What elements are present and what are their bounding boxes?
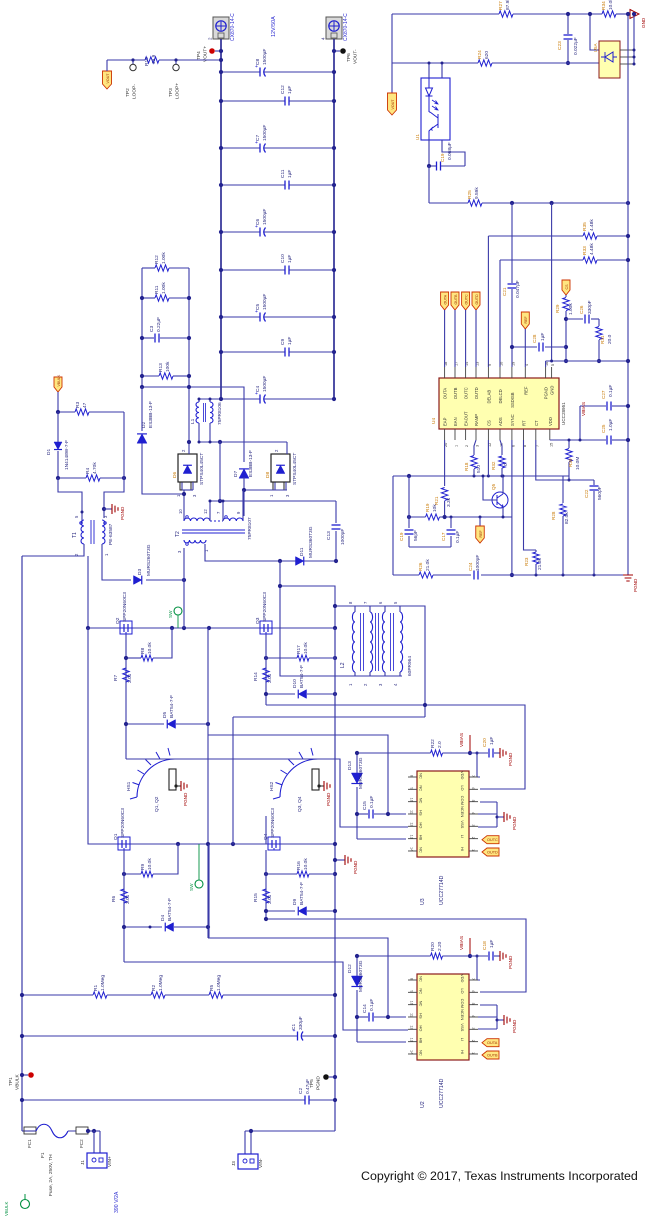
svg-text:D11: D11: [299, 547, 305, 556]
resistor R21 3.3k on EAP line: [444, 440, 446, 486]
svg-text:J3: J3: [231, 1161, 236, 1166]
svg-text:1500µF: 1500µF: [262, 125, 268, 141]
svg-text:2.0: 2.0: [437, 741, 443, 748]
wire to leg B bus: [280, 586, 335, 628]
svg-text:R25: R25: [467, 190, 473, 199]
svg-text:D5: D5: [162, 712, 168, 718]
svg-text:8: 8: [410, 775, 414, 777]
svg-text:21.0k: 21.0k: [425, 559, 431, 571]
svg-text:VBIAS: VBIAS: [459, 733, 465, 747]
capacitor C17 0.1uF: [450, 517, 452, 528]
capacitor C7 1500uF: [221, 147, 260, 149]
wire leg A mid vertical: [207, 628, 209, 938]
net flag OUTC to U3 LI: [482, 836, 499, 844]
wire T2 center tap: [209, 501, 211, 521]
svg-text:EAP: EAP: [443, 417, 448, 426]
svg-text:PGND: PGND: [508, 955, 513, 969]
svg-text:9: 9: [410, 787, 414, 789]
svg-text:R20: R20: [430, 942, 436, 951]
capacitor C28 1uF: [512, 346, 537, 348]
svg-text:C27: C27: [601, 390, 606, 399]
svg-text:10: 10: [410, 798, 414, 802]
capacitor C23 0.022uF: [567, 14, 569, 34]
svg-text:1.0Meg: 1.0Meg: [216, 975, 222, 991]
svg-text:C13: C13: [326, 531, 332, 540]
optocoupler U1: [421, 78, 450, 140]
svg-text:COM: COM: [460, 999, 465, 1008]
svg-text:ADS: ADS: [498, 417, 503, 426]
wire row 517: [409, 516, 426, 518]
wire T2 primary pin1 row / diode D11 MURS360T3G: [205, 544, 336, 561]
resistor R14 3.01: [265, 634, 267, 705]
svg-text:VBIAS: VBIAS: [459, 936, 465, 950]
svg-text:VBULK: VBULK: [57, 374, 61, 386]
svg-text:T2: T2: [175, 531, 181, 537]
svg-text:620: 620: [484, 51, 490, 59]
svg-text:3.01: 3.01: [125, 894, 131, 904]
gate driver U2 UCC27714D: [417, 974, 469, 1060]
svg-text:10.0k: 10.0k: [147, 642, 153, 654]
svg-text:VIN+: VIN+: [107, 1156, 113, 1167]
test point SW leg B: [195, 880, 203, 888]
capacitor C26 330pF: [566, 318, 583, 320]
svg-text:75PR8107: 75PR8107: [247, 517, 253, 540]
wire VBIAS rail / C27: [580, 405, 606, 407]
svg-text:U3: U3: [420, 898, 426, 905]
svg-text:PGND: PGND: [512, 816, 517, 830]
svg-text:HI: HI: [460, 847, 465, 851]
svg-text:1500µF: 1500µF: [262, 49, 268, 65]
net flag OUTD to U3 HI: [482, 848, 499, 856]
svg-text:R23: R23: [524, 557, 529, 566]
resistor R10 49.9: [145, 57, 159, 63]
svg-text:R29: R29: [555, 304, 560, 313]
svg-text:0: 0: [503, 463, 509, 466]
fuse F1 with clips FC1 FC2: [22, 1130, 36, 1132]
svg-text:R30: R30: [568, 458, 573, 467]
svg-text:VDD: VDD: [460, 771, 465, 780]
diode D4 BAT54-7-F: [124, 926, 162, 928]
test point TP4 VOUT+: [215, 50, 221, 52]
svg-text:1µF: 1µF: [489, 737, 495, 745]
svg-text:10: 10: [500, 362, 504, 366]
svg-text:U1: U1: [415, 134, 420, 140]
svg-text:1.0Meg: 1.0Meg: [100, 975, 106, 991]
capacitor C4 1500uF: [198, 398, 260, 400]
svg-text:C8: C8: [255, 59, 261, 65]
svg-text:T1: T1: [72, 532, 78, 538]
wire row 705 to U3 LO: [266, 705, 525, 789]
svg-text:11: 11: [410, 1013, 414, 1017]
svg-text:5: 5: [471, 1003, 475, 1005]
svg-text:Fuse, 2A, 250V, TH: Fuse, 2A, 250V, TH: [48, 1154, 54, 1196]
capacitor C24 1000pF: [473, 571, 475, 580]
svg-text:1µF: 1µF: [287, 170, 293, 178]
svg-text:12V/50A: 12V/50A: [271, 16, 277, 37]
wire HO row U3: [126, 759, 408, 827]
svg-text:0.047µF: 0.047µF: [515, 280, 521, 298]
svg-text:HB: HB: [419, 1038, 424, 1044]
resistor R12 1.00k: [142, 267, 155, 269]
svg-text:10k: 10k: [432, 504, 438, 512]
svg-text:PGND: PGND: [353, 860, 358, 874]
svg-text:DELCD: DELCD: [498, 389, 503, 403]
wire VBULK left rail: [21, 556, 23, 1131]
svg-text:NCEN: NCEN: [460, 806, 465, 817]
test point TP2 LOOP-: [132, 60, 134, 64]
net flag VBULK bias: [54, 377, 62, 392]
wire v233: [232, 717, 234, 844]
wire clamp row: [142, 387, 244, 462]
svg-text:510: 510: [476, 465, 482, 473]
capacitor C12 1uF: [221, 100, 285, 102]
svg-text:TP2: TP2: [125, 88, 131, 97]
test point TP3 LOOP+: [175, 60, 177, 64]
heatsink HS1: [137, 759, 175, 797]
resistor R28 82.0k: [562, 476, 564, 503]
svg-text:VBULK: VBULK: [4, 1202, 9, 1216]
svg-text:3.01: 3.01: [267, 894, 273, 904]
capacitor C8 1500uF: [221, 71, 260, 73]
svg-text:UCC28951: UCC28951: [561, 402, 566, 425]
gate driver U3 UCC27714D: [417, 771, 469, 857]
svg-text:R13: R13: [158, 363, 164, 372]
wire row 547: [409, 546, 451, 548]
svg-text:R12: R12: [154, 255, 160, 264]
wire bootstrap row R22 U3: [357, 752, 431, 754]
svg-text:D6: D6: [172, 472, 178, 478]
svg-text:R32: R32: [491, 461, 496, 470]
svg-text:VIN-: VIN-: [258, 1158, 264, 1168]
wire PGND GND pins to bus: [546, 360, 628, 362]
wire choke row: [198, 441, 287, 443]
capacitor C11 1uF: [221, 184, 285, 186]
svg-text:3: 3: [471, 1027, 475, 1029]
svg-text:R18: R18: [464, 462, 469, 471]
svg-text:C25: C25: [601, 424, 606, 433]
svg-text:HS: HS: [419, 810, 424, 816]
svg-text:0.022µF: 0.022µF: [573, 37, 579, 55]
svg-text:2: 2: [471, 1040, 475, 1042]
svg-text:UCC27714D: UCC27714D: [439, 875, 445, 905]
svg-text:4: 4: [471, 1015, 475, 1017]
svg-text:R8: R8: [140, 648, 146, 654]
svg-text:HS1: HS1: [126, 781, 132, 791]
svg-text:EAN: EAN: [453, 417, 458, 426]
svg-text:MURS360T3G: MURS360T3G: [308, 526, 314, 558]
svg-text:R35: R35: [582, 222, 588, 231]
svg-text:CS: CS: [486, 420, 491, 426]
svg-text:D10: D10: [292, 679, 298, 688]
svg-text:R10: R10: [144, 57, 150, 66]
svg-text:47: 47: [82, 402, 88, 408]
svg-text:C26: C26: [579, 305, 584, 314]
svg-text:OUTD: OUTD: [475, 294, 479, 305]
svg-text:10.0k: 10.0k: [303, 858, 309, 870]
resistor R3 47: [58, 411, 75, 413]
svg-text:15: 15: [549, 443, 553, 447]
ground PGND U3 vss: [478, 813, 497, 815]
svg-text:1.0Meg: 1.0Meg: [158, 975, 164, 991]
svg-text:1µF: 1µF: [489, 940, 495, 948]
capacitor C14 0.1uF: [357, 1016, 368, 1018]
svg-text:1µF: 1µF: [540, 333, 546, 341]
diode D10 BAT54-7-F: [266, 693, 295, 695]
svg-text:SSDISB: SSDISB: [510, 392, 515, 408]
capacitor C25 1.0uF: [580, 439, 606, 441]
resistor R27 87.9k: [499, 11, 513, 17]
wire row 938 to U2 HS: [208, 938, 388, 1017]
svg-text:3.01: 3.01: [127, 673, 133, 683]
svg-text:NC: NC: [419, 988, 424, 994]
wire divider rails: [141, 268, 143, 387]
svg-text:390 V/2A: 390 V/2A: [114, 1191, 120, 1213]
svg-text:DELAB: DELAB: [486, 390, 491, 404]
diode D7 ES3BB-13-F: [239, 469, 249, 478]
resistor R26 21.0k: [419, 572, 433, 578]
resistors R1 R2 R5 1.0Meg: [22, 994, 93, 996]
svg-text:RT: RT: [522, 420, 527, 426]
svg-text:HB: HB: [419, 835, 424, 841]
svg-text:CS: CS: [565, 284, 569, 290]
svg-text:19: 19: [511, 362, 515, 366]
svg-text:1500µF: 1500µF: [262, 376, 268, 392]
svg-text:D4: D4: [160, 915, 166, 921]
test point TP6 VOUT-: [334, 50, 340, 52]
svg-text:R3: R3: [75, 402, 81, 408]
net flags OUTA-OUTD above controller: [441, 292, 449, 310]
svg-text:0.1µF: 0.1µF: [608, 385, 614, 397]
svg-text:R22: R22: [430, 739, 436, 748]
svg-text:GND: GND: [641, 17, 646, 28]
svg-text:REF: REF: [523, 386, 528, 395]
svg-text:C6: C6: [255, 219, 261, 225]
svg-text:NC: NC: [419, 847, 424, 853]
svg-text:CX870-14-C: CX870-14-C: [230, 13, 236, 41]
wire row 735 to U3 HS: [208, 735, 388, 814]
capacitor C19 56pF: [408, 476, 410, 528]
svg-text:R31: R31: [600, 335, 605, 344]
svg-text:5: 5: [551, 364, 555, 366]
svg-text:D3: D3: [137, 569, 143, 575]
svg-text:12: 12: [410, 1025, 414, 1029]
svg-text:VOUT-: VOUT-: [353, 49, 359, 64]
svg-text:13: 13: [410, 835, 414, 839]
svg-text:12: 12: [410, 822, 414, 826]
svg-text:1000pF: 1000pF: [475, 555, 481, 571]
svg-text:NC: NC: [419, 1001, 424, 1007]
svg-text:Q3: Q3: [255, 617, 261, 624]
capacitor C18 1uF: [470, 955, 488, 957]
svg-text:HS2: HS2: [269, 781, 275, 791]
svg-text:7: 7: [471, 978, 475, 980]
resistor R30 10.0M: [568, 440, 570, 448]
svg-text:OUTB: OUTB: [454, 294, 458, 305]
chassis symbol: [21, 1200, 30, 1209]
capacitor C6 1500uF: [221, 231, 260, 233]
wire bridge bottom row: [88, 628, 116, 844]
resistor R22 2.0: [431, 750, 443, 756]
svg-text:R34: R34: [601, 1, 607, 10]
resistor R7 3.01: [123, 668, 129, 682]
svg-text:VSS: VSS: [460, 820, 465, 828]
svg-text:13: 13: [410, 1038, 414, 1042]
wire EA row 476: [393, 475, 569, 477]
resistor R16 10.0k: [266, 873, 297, 875]
capacitor C20 1uF: [470, 752, 488, 754]
svg-text:C19: C19: [440, 153, 445, 162]
ground PGND at C20: [500, 748, 506, 758]
svg-text:ES3BB-13-F: ES3BB-13-F: [148, 401, 154, 428]
svg-text:2: 2: [465, 445, 469, 447]
net flag CS / resistor R29 1.00k: [562, 280, 570, 295]
svg-text:R2: R2: [151, 985, 157, 991]
resistor R25 9.59k: [468, 200, 482, 206]
svg-text:10.0k: 10.0k: [147, 858, 153, 870]
resistor R6 3.01: [121, 889, 127, 903]
transistor Q2 SPP20N60C3: [120, 621, 132, 634]
svg-text:56pF: 56pF: [413, 530, 419, 541]
wire Q2 gate line: [125, 634, 127, 759]
diode D13 MURS360T3G: [356, 753, 358, 773]
svg-text:OUTA: OUTA: [443, 388, 448, 400]
svg-text:1.00k: 1.00k: [568, 303, 574, 315]
svg-text:VOUT: VOUT: [106, 73, 110, 84]
net flag VOUT: [103, 71, 112, 89]
svg-text:BAT54-7-F: BAT54-7-F: [299, 882, 305, 905]
svg-text:LO: LO: [460, 785, 465, 790]
capacitor C13 1000pF: [335, 501, 337, 523]
svg-text:U2: U2: [420, 1101, 426, 1108]
svg-text:1.00k: 1.00k: [161, 282, 167, 294]
wire R25 row: [428, 166, 430, 203]
svg-text:0.068µF: 0.068µF: [447, 142, 453, 160]
svg-text:LO: LO: [460, 988, 465, 993]
resistor R24 620: [478, 60, 492, 66]
svg-text:C18: C18: [482, 941, 488, 950]
svg-text:1.0µF: 1.0µF: [608, 419, 614, 431]
svg-text:LOOP+: LOOP+: [175, 83, 181, 99]
svg-text:12: 12: [203, 509, 208, 514]
svg-text:VBULK: VBULK: [15, 1073, 21, 1090]
svg-text:R16: R16: [296, 861, 302, 870]
wire bootstrap row R20 U2: [357, 955, 431, 957]
wire row2 opto: [391, 14, 393, 63]
wire SYNC to bottom row: [511, 440, 513, 575]
svg-text:J1: J1: [80, 1160, 85, 1165]
svg-text:C23: C23: [557, 41, 563, 50]
svg-text:TP6: TP6: [346, 53, 352, 62]
ground PGND bus bottom: [623, 575, 633, 581]
svg-text:PGND: PGND: [544, 387, 549, 399]
svg-text:U4: U4: [431, 418, 437, 424]
svg-text:NCEN: NCEN: [460, 1009, 465, 1020]
svg-text:OUTA: OUTA: [443, 294, 447, 304]
svg-text:FC1: FC1: [27, 1139, 32, 1148]
svg-text:OUTD: OUTD: [487, 851, 498, 855]
svg-text:10: 10: [178, 509, 183, 514]
svg-text:R11: R11: [154, 285, 160, 294]
svg-text:R4: R4: [85, 468, 91, 474]
resistor R15 3.01: [265, 850, 267, 919]
svg-text:C9: C9: [280, 339, 286, 345]
svg-text:7: 7: [471, 775, 475, 777]
resistor R4 4.70k: [58, 477, 86, 479]
svg-text:1µF: 1µF: [287, 86, 293, 94]
svg-text:HO: HO: [419, 1025, 424, 1031]
svg-text:NC: NC: [419, 785, 424, 791]
svg-text:1µF: 1µF: [287, 337, 293, 345]
svg-text:21.0k: 21.0k: [537, 558, 543, 570]
svg-text:OUTC: OUTC: [464, 294, 468, 305]
test point SW leg A: [174, 607, 182, 615]
capacitor C5 1500uF: [221, 316, 260, 318]
svg-text:1N4148W-7-F: 1N4148W-7-F: [64, 440, 70, 470]
capacitor C3 0.22uF: [142, 337, 154, 339]
resistor R33 4.48k row: [500, 259, 583, 261]
wire bridge top row: [87, 556, 89, 628]
svg-text:OUTC: OUTC: [487, 838, 498, 842]
svg-text:PGND: PGND: [508, 752, 513, 766]
svg-text:8: 8: [410, 978, 414, 980]
svg-text:2: 2: [471, 837, 475, 839]
svg-text:3: 3: [476, 445, 480, 447]
ground PGND U2 vss: [478, 1016, 497, 1018]
svg-text:OUTB: OUTB: [487, 1054, 498, 1058]
wire left loop v393: [392, 476, 394, 575]
svg-text:SPP20N60C3: SPP20N60C3: [270, 808, 276, 838]
wire CS stub: [487, 440, 489, 476]
svg-text:PGND: PGND: [512, 1019, 517, 1033]
svg-text:SW: SW: [189, 883, 194, 891]
svg-text:C12: C12: [280, 85, 286, 94]
resistor R8 10.0k: [153, 628, 172, 658]
svg-text:C20: C20: [482, 738, 488, 747]
svg-text:11: 11: [410, 810, 414, 814]
diode D2 ES3BB-13-F: [141, 387, 143, 431]
svg-text:6: 6: [471, 787, 475, 789]
svg-text:CX870-14-C: CX870-14-C: [343, 13, 349, 41]
svg-text:9: 9: [410, 990, 414, 992]
svg-text:MURS360T3G: MURS360T3G: [358, 757, 364, 789]
diode D12 MURS360T3G: [356, 956, 358, 976]
svg-text:F1: F1: [40, 1152, 46, 1158]
svg-text:COM: COM: [460, 796, 465, 805]
svg-text:PGND: PGND: [316, 1076, 322, 1090]
svg-text:R19: R19: [425, 503, 430, 512]
svg-text:OUTB: OUTB: [453, 387, 458, 399]
ground PGND at bus: [335, 859, 345, 861]
svg-text:R26: R26: [418, 562, 423, 571]
svg-text:LI: LI: [460, 1038, 465, 1041]
svg-text:3.01: 3.01: [267, 673, 273, 683]
svg-text:VSS: VSS: [460, 1023, 465, 1031]
svg-text:2.20: 2.20: [437, 941, 443, 951]
svg-text:Q5: Q5: [491, 483, 496, 490]
net flag OUTA to U2 LI: [482, 1039, 499, 1047]
svg-text:C19: C19: [399, 532, 404, 541]
resistor R34 10.0k: [602, 11, 616, 17]
capacitor C15 0.1uF: [357, 813, 368, 815]
svg-text:9: 9: [488, 364, 492, 366]
svg-text:D1: D1: [46, 449, 52, 455]
svg-text:Q1, Q2: Q1, Q2: [154, 796, 160, 812]
svg-text:3.3k: 3.3k: [446, 497, 452, 507]
resistor R35 4.48k row: [488, 235, 583, 237]
diode D1 1N4148W-7-F: [57, 412, 59, 443]
wire HB row U2: [357, 1041, 406, 1043]
resistor R23 21.0k: [524, 440, 537, 550]
